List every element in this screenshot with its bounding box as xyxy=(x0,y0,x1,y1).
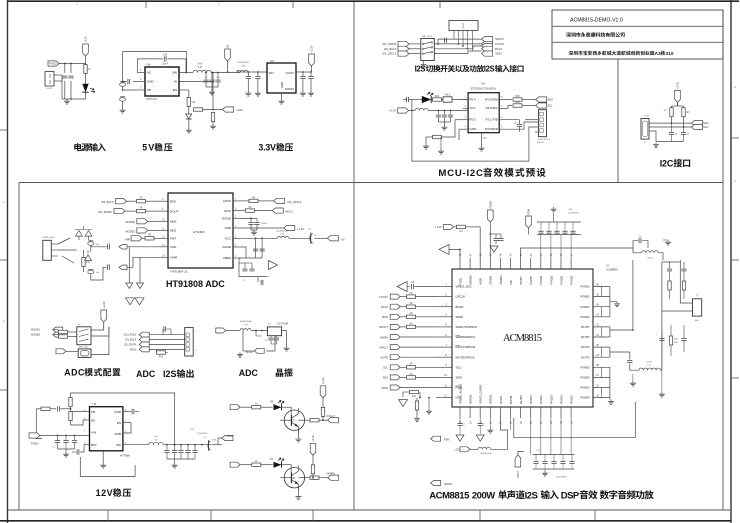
wire VCC to 5V flag xyxy=(315,236,345,242)
capacitor C58 xyxy=(308,71,313,91)
wire OUTP xyxy=(610,260,634,337)
VREF network xyxy=(239,258,265,285)
wire SDA xyxy=(400,373,436,379)
label ADC模式配置 xyxy=(64,368,120,378)
resistor R11 xyxy=(137,197,160,203)
wire I2C gnd xyxy=(649,131,684,142)
net flag PVDD 12V xyxy=(29,433,48,446)
ferrite bead FB1 600R/100M xyxy=(237,62,249,72)
svg-text:SDIN: SDIN xyxy=(495,52,501,56)
svg-text:MD0: MD0 xyxy=(170,220,177,224)
net flag MUTE U7 xyxy=(381,355,401,360)
svg-text:P3.2/SCL: P3.2/SCL xyxy=(486,106,499,110)
input filter caps xyxy=(48,435,90,449)
svg-text:SCKI: SCKI xyxy=(224,209,231,213)
wire U3 gnd xyxy=(80,451,135,477)
svg-text:VINL: VINL xyxy=(170,245,177,249)
svg-text:SDIN: SDIN xyxy=(456,315,463,319)
bias network ground xyxy=(126,247,144,289)
svg-text:GND: GND xyxy=(147,80,155,84)
wire config to 3.3V xyxy=(91,322,109,355)
bias resistor R14 xyxy=(82,250,91,272)
svg-text:12: 12 xyxy=(444,393,447,397)
svg-text:PGND: PGND xyxy=(581,396,591,400)
net flag BCLK xyxy=(482,43,493,48)
wire U7 top pin stubs xyxy=(458,253,573,269)
svg-text:DSP: DSP xyxy=(561,490,580,501)
capacitor C61 xyxy=(669,123,678,141)
svg-text:43: 43 xyxy=(509,253,513,256)
wire WARN xyxy=(400,336,436,338)
svg-text:AGND: AGND xyxy=(499,275,503,285)
regulator IC U3 HT7866 xyxy=(84,402,130,458)
svg-text:MUTE: MUTE xyxy=(381,356,389,360)
svg-text:GND: GND xyxy=(470,127,476,131)
capacitor C49 xyxy=(122,79,130,84)
net flag +12V xyxy=(223,107,244,112)
polarized capacitor C51 xyxy=(120,97,126,108)
svg-text:4u4: 4u4 xyxy=(198,63,203,66)
svg-text:MCLK: MCLK xyxy=(285,210,293,214)
wire ADC left pins xyxy=(159,198,168,257)
net flag SDA U7 xyxy=(383,375,401,380)
net flag I2S_BCLK out2 xyxy=(125,337,149,342)
net flag BCLK U7 xyxy=(381,304,400,309)
svg-text:0R: 0R xyxy=(409,302,412,305)
wire MCU pins xyxy=(463,96,504,129)
svg-text:U2: U2 xyxy=(270,59,274,63)
clamp diode pair D4 xyxy=(75,226,92,240)
label 3.3V稳压 xyxy=(258,143,293,153)
transistor Q6 xyxy=(280,465,304,490)
svg-text:ACM8815: ACM8815 xyxy=(503,333,542,344)
net flag +3.3V D7 xyxy=(230,462,252,467)
svg-text:600R/100M: 600R/100M xyxy=(480,453,491,455)
svg-text:27: 27 xyxy=(596,373,599,377)
wire output bus xyxy=(662,260,693,370)
svg-text:P3.0/RXD: P3.0/RXD xyxy=(485,127,498,131)
net flag MODE1 xyxy=(125,228,159,234)
svg-text:R65: R65 xyxy=(515,95,520,98)
capacitor C2 xyxy=(68,76,73,78)
label ADC I2S输出 xyxy=(136,369,194,379)
svg-text:PVDD: PVDD xyxy=(539,395,543,404)
net flag SDOUT U7 xyxy=(379,324,400,329)
svg-text:HT91808 U1: HT91808 U1 xyxy=(170,270,187,274)
svg-text:P5.4: P5.4 xyxy=(470,97,476,101)
config resistor network xyxy=(426,120,463,144)
svg-text:SDIN: SDIN xyxy=(382,315,388,319)
xtal caps xyxy=(256,331,279,345)
svg-text:/FAULT: /FAULT xyxy=(327,414,336,418)
PVDD cap bank bottom xyxy=(531,418,575,479)
net flag /FAULT xyxy=(327,414,339,423)
svg-text:10uH: 10uH xyxy=(647,258,653,260)
svg-text:SDOUT: SDOUT xyxy=(495,37,505,41)
svg-text:CON: CON xyxy=(644,116,649,118)
LED D7 xyxy=(270,457,291,467)
svg-text:200W: 200W xyxy=(472,490,495,501)
ground xyxy=(245,91,261,96)
svg-text:I2S_BCLK: I2S_BCLK xyxy=(125,338,137,341)
ground xyxy=(653,143,659,148)
resistor Rp Q7 xyxy=(321,407,324,420)
svg-text:0R: 0R xyxy=(409,322,412,325)
svg-text:SDA: SDA xyxy=(703,121,709,125)
capacitor C64 xyxy=(441,37,446,43)
svg-text:MCU-I2C: MCU-I2C xyxy=(438,168,483,179)
power flag B1 xyxy=(225,44,231,73)
svg-text:OUTN: OUTN xyxy=(519,395,523,404)
svg-text:I2S_LRCLK: I2S_LRCLK xyxy=(124,334,137,337)
net flag PVDD xyxy=(48,61,59,66)
net flag MODE0 xyxy=(125,219,159,224)
ground triangle pin12 xyxy=(399,400,408,407)
pullup resistor R71 xyxy=(663,108,673,123)
I2C connector J2 xyxy=(641,116,649,145)
svg-text:OUTP: OUTP xyxy=(581,325,590,329)
svg-text:PSD: PSD xyxy=(458,277,462,284)
svg-text:STC8G1K17-36I-QFN: STC8G1K17-36I-QFN xyxy=(470,87,496,91)
BSTP bootstrap cap xyxy=(521,235,648,258)
polarized cap C42 xyxy=(204,435,222,451)
net flag +12V out xyxy=(218,434,233,445)
svg-text:JMP_SW: JMP_SW xyxy=(79,346,89,348)
ground xyxy=(172,463,178,468)
svg-text:DGND: DGND xyxy=(222,217,232,221)
ADC IC U1 HT91808 xyxy=(168,193,233,274)
svg-text:L7B: L7B xyxy=(241,66,245,68)
svg-text:C: C xyxy=(483,424,485,427)
wire 3.3V output xyxy=(296,71,312,73)
svg-text:EN: EN xyxy=(173,88,177,92)
svg-text:R64: R64 xyxy=(435,95,440,98)
resistor R41 xyxy=(36,407,56,410)
resistor R12 xyxy=(137,207,160,213)
net flag MCLK xtal xyxy=(246,348,264,354)
svg-text:34: 34 xyxy=(596,303,599,307)
svg-text:ACM8815-DEMO-V1.0: ACM8815-DEMO-V1.0 xyxy=(570,17,623,23)
svg-text:VDD: VDD xyxy=(225,226,232,230)
svg-text:/WARN: /WARN xyxy=(327,471,336,475)
svg-text:25: 25 xyxy=(596,393,599,397)
svg-text:+3.3V: +3.3V xyxy=(389,109,396,113)
svg-text:0R: 0R xyxy=(409,373,412,376)
resistor R D6 xyxy=(252,403,273,409)
pin12 RC network xyxy=(403,390,421,401)
ground triangle xyxy=(456,435,464,441)
net flag I2S_BCLK xyxy=(384,46,409,51)
svg-text:AGND: AGND xyxy=(489,394,493,404)
svg-text:VREF: VREF xyxy=(223,256,231,260)
svg-text:PVDD: PVDD xyxy=(549,395,553,404)
svg-text:GND: GND xyxy=(280,82,284,88)
analog switch SW3 xyxy=(421,36,435,63)
svg-text:OUTN: OUTN xyxy=(581,345,590,349)
svg-text:EN: EN xyxy=(117,421,121,425)
power flag +3.3V xyxy=(309,45,315,72)
svg-text:JMP_SW3: JMP_SW3 xyxy=(422,36,433,38)
svg-text:DGND: DGND xyxy=(469,275,473,285)
wire U7 bottom pin stubs xyxy=(458,407,573,424)
svg-text:+12V: +12V xyxy=(236,108,243,112)
jumper JMP_SW FMT xyxy=(78,346,91,357)
svg-text:PGND: PGND xyxy=(581,365,591,369)
svg-text:ACM8815: ACM8815 xyxy=(606,268,618,272)
net flag +3.3V D6 xyxy=(230,405,252,410)
title block xyxy=(552,10,723,59)
power flag +3.3V pull Q6 xyxy=(310,434,316,465)
svg-text:100uF/16V: 100uF/16V xyxy=(568,212,579,214)
svg-text:PVDD: PVDD xyxy=(570,275,574,284)
svg-text:+3.3V: +3.3V xyxy=(676,82,680,89)
wire U6 feedback loop xyxy=(123,52,187,90)
ground Q7 xyxy=(295,429,301,442)
inductor L6 4u4 xyxy=(193,63,211,73)
net flag I2S_SDATA xyxy=(382,41,409,46)
resistor R1 xyxy=(84,56,92,85)
DIP switch JP1 xyxy=(77,324,91,344)
svg-text:100nF: 100nF xyxy=(162,63,169,66)
net flag I2S_LRCLK xyxy=(382,51,409,56)
svg-text:VOUT: VOUT xyxy=(286,71,295,75)
wire xtal to MCLK xyxy=(243,331,287,352)
pullup resistor R65 xyxy=(503,95,536,101)
wire U2 ground xyxy=(281,93,283,99)
net flag MCLK out2 xyxy=(130,347,149,352)
svg-text:ADC: ADC xyxy=(64,368,85,378)
VREF buffer opamp xyxy=(264,261,278,277)
capacitor bank MCU VCC xyxy=(436,110,453,125)
svg-text:35: 35 xyxy=(596,292,599,296)
jumper AM-2 xyxy=(443,94,468,103)
wire I2C SCL xyxy=(649,126,691,128)
net flag SDOUT xyxy=(482,37,505,42)
svg-text:3.3V: 3.3V xyxy=(258,143,276,153)
svg-text:MODE0: MODE0 xyxy=(31,334,41,337)
ground triangle DVDD xyxy=(490,246,498,252)
svg-text:+12V: +12V xyxy=(84,36,88,43)
svg-text:PVDD: PVDD xyxy=(529,395,533,404)
header connector CON5 xyxy=(449,21,478,52)
svg-text:BSTN: BSTN xyxy=(509,396,513,404)
MCU IC U4 STC8G1K17 xyxy=(468,82,499,133)
ground xyxy=(663,240,671,245)
resistor Rp Q6 xyxy=(311,465,314,478)
svg-text:WARN: WARN xyxy=(380,335,388,339)
svg-text:WARN/GPIO1: WARN/GPIO1 xyxy=(456,335,476,339)
wire MUTE xyxy=(400,356,436,358)
pullup resistor R66 xyxy=(503,101,536,109)
svg-text:I2S_LRCLK: I2S_LRCLK xyxy=(382,52,396,56)
net flag FSYNC xyxy=(482,41,505,46)
svg-text:/MUTE: /MUTE xyxy=(444,482,452,486)
ground xyxy=(100,463,106,468)
ground xyxy=(300,91,314,96)
wire I2C SDA xyxy=(649,122,691,124)
svg-text:DVDD: DVDD xyxy=(489,275,493,285)
svg-text:VREG_GXBD: VREG_GXBD xyxy=(479,384,483,404)
net flag /WARN xyxy=(327,471,339,480)
svg-text:19: 19 xyxy=(519,421,523,424)
svg-text:FB: FB xyxy=(147,88,151,92)
svg-text:GND: GND xyxy=(114,410,122,414)
svg-text:PVDD: PVDD xyxy=(559,395,563,404)
VREG_AUDIO cap xyxy=(457,418,465,434)
svg-text:I2S: I2S xyxy=(163,369,177,379)
svg-text:FB: FB xyxy=(91,410,95,414)
net flag MODE0 cfg xyxy=(31,332,63,337)
resistor R75 xyxy=(415,401,418,417)
wire GND pin cap xyxy=(123,409,139,414)
svg-text:VCC: VCC xyxy=(225,237,232,241)
svg-text:BCLK: BCLK xyxy=(381,305,388,309)
buffer triangle pin1 xyxy=(397,282,410,292)
wire 12V rail to 3.3V xyxy=(236,71,267,73)
wire switch to flags xyxy=(434,39,481,54)
svg-text:P5.5: P5.5 xyxy=(470,118,476,122)
svg-text:1.3M5_JACK: 1.3M5_JACK xyxy=(42,236,55,239)
net flag SDIN xyxy=(482,51,502,56)
wire +12V tap xyxy=(195,82,223,111)
svg-text:L7B: L7B xyxy=(244,324,248,326)
svg-text:33: 33 xyxy=(596,313,599,317)
net flag FSYNC U7 xyxy=(379,294,400,299)
svg-text:100nF: 100nF xyxy=(261,223,268,225)
svg-text:MCLK: MCLK xyxy=(130,348,137,351)
svg-text:AVCC: AVCC xyxy=(499,395,503,404)
svg-text:22.5792M: 22.5792M xyxy=(277,323,288,326)
capacitor C41 xyxy=(58,406,72,411)
capacitor C60 xyxy=(503,120,522,132)
svg-text:HT91808 ADC: HT91808 ADC xyxy=(166,279,225,289)
programming header CON4 xyxy=(537,110,551,145)
svg-text:MODE0: MODE0 xyxy=(125,220,135,224)
svg-text:VINR: VINR xyxy=(170,256,178,260)
ground xyxy=(186,128,192,133)
svg-text:14: 14 xyxy=(468,421,472,424)
amplifier IC U7 ACM8815 xyxy=(452,264,618,408)
svg-text:4k7: 4k7 xyxy=(686,111,691,114)
wire PGND bus top xyxy=(610,287,617,317)
capacitor C48 100nF xyxy=(162,54,169,66)
net flag +3.3V xtal xyxy=(215,328,240,333)
net flag I2S_BCLK ADC xyxy=(101,199,136,204)
net flag FMT cfg xyxy=(56,349,78,354)
svg-text:U3: U3 xyxy=(93,402,97,406)
resistor R2 xyxy=(187,98,196,115)
svg-text:I2S: I2S xyxy=(484,65,495,74)
svg-text:FMT: FMT xyxy=(170,237,176,241)
wire I2C pullup rail xyxy=(672,102,684,108)
wire U7 right pin stubs xyxy=(593,282,610,397)
polarized capacitor C50 xyxy=(120,82,126,91)
svg-text:I2S_LRCLK: I2S_LRCLK xyxy=(287,200,301,204)
svg-text:SDOUT: SDOUT xyxy=(379,325,388,329)
snubber cap C74 xyxy=(681,264,686,281)
net flag SCL xyxy=(536,103,554,108)
net flag WARN U7 xyxy=(380,335,400,340)
svg-text:+3.3V: +3.3V xyxy=(311,434,315,441)
svg-text:CON5: CON5 xyxy=(463,22,465,29)
resistor R D7 xyxy=(252,460,273,466)
svg-text:L7A: L7A xyxy=(280,233,284,236)
svg-text:1uF: 1uF xyxy=(96,244,100,246)
svg-text:SCL: SCL xyxy=(383,366,389,370)
label 5V稳压 xyxy=(142,143,172,153)
svg-text:LRCK: LRCK xyxy=(223,199,231,203)
pullup resistor R72 xyxy=(682,108,691,127)
AGND wire xyxy=(241,247,262,258)
wire ADC right pins xyxy=(233,198,241,258)
transistor Q7 xyxy=(280,407,304,432)
ground xyxy=(630,352,665,397)
buffer triangle pin48 xyxy=(439,244,461,258)
power flag +3.3V cfg xyxy=(101,301,107,322)
svg-text:28: 28 xyxy=(596,363,599,367)
inductor L5 on VCC xyxy=(415,108,468,110)
svg-text:+12V: +12V xyxy=(454,448,460,452)
ground xyxy=(209,87,215,95)
svg-text:0R: 0R xyxy=(139,197,142,200)
capacitor C70 xyxy=(411,281,436,289)
svg-text:0R: 0R xyxy=(139,207,142,210)
svg-text:MIC-IF: MIC-IF xyxy=(537,142,544,144)
I2S output header CON6 xyxy=(185,328,197,356)
ground xyxy=(614,302,620,307)
svg-text:FAULT/GPIO2: FAULT/GPIO2 xyxy=(456,345,476,349)
svg-text:OUTP: OUTP xyxy=(529,276,533,285)
svg-text:DOUT: DOUT xyxy=(170,209,179,213)
wire FSYNC xyxy=(400,292,436,298)
svg-text:BCK: BCK xyxy=(170,199,176,203)
svg-text:I2S_SDATA: I2S_SDATA xyxy=(382,42,396,46)
regulator IC U2 BL8064 xyxy=(267,59,296,93)
svg-text:0R: 0R xyxy=(409,312,412,315)
ferrite bead L8 600R/100M xyxy=(240,321,268,331)
svg-text:P5.3/SDA: P5.3/SDA xyxy=(485,97,498,101)
svg-text:BST: BST xyxy=(91,443,97,447)
svg-text:600R/100M: 600R/100M xyxy=(240,321,251,323)
wire EN DCB xyxy=(123,423,131,434)
wire EN divider xyxy=(179,90,189,98)
svg-text:AGND: AGND xyxy=(469,394,473,404)
svg-text:600R/100M: 600R/100M xyxy=(276,231,287,233)
svg-text:MODE1: MODE1 xyxy=(125,229,135,233)
resistor R13 xyxy=(142,234,159,240)
resistor divider R42 xyxy=(69,398,72,426)
svg-text:PGND: PGND xyxy=(581,386,591,390)
net flag I2S_SDATA ADC xyxy=(98,209,136,215)
svg-text:BL8064: BL8064 xyxy=(285,87,295,91)
wire I2S out to header xyxy=(149,335,185,350)
ground triangles VREF xyxy=(126,298,145,305)
wire SW output rail xyxy=(179,72,240,83)
power flag +12V xyxy=(83,36,89,56)
svg-text:ACM8815: ACM8815 xyxy=(429,490,470,501)
svg-text:PGND: PGND xyxy=(581,376,591,380)
net flag I2S_SDATA out2 xyxy=(124,342,149,347)
capacitor C1 xyxy=(62,76,67,78)
svg-text:IN: IN xyxy=(174,80,177,84)
svg-text:R66: R66 xyxy=(515,101,520,104)
svg-text:BCLK: BCLK xyxy=(495,47,502,51)
svg-text:FMT: FMT xyxy=(125,237,131,241)
label I2C接口 xyxy=(660,158,690,168)
svg-text:+: + xyxy=(315,233,317,237)
svg-text:U7: U7 xyxy=(606,264,610,268)
svg-text:CON4 SIP1.0: CON4 SIP1.0 xyxy=(537,139,551,141)
